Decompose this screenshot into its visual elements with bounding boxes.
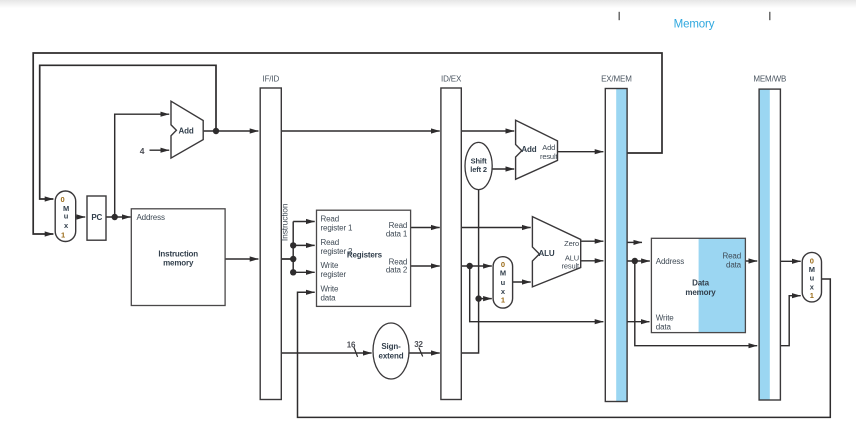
- svg-text:data 2: data 2: [386, 266, 408, 275]
- wire: ALU mux output -> ALU: [513, 281, 531, 283]
- node: ALU result branch junction after EX/MEM: [632, 258, 638, 264]
- adder Add (PC+4): [171, 101, 203, 158]
- svg-text:ID/EX: ID/EX: [441, 75, 462, 84]
- junction dots: [112, 128, 639, 302]
- wire: Read data 2 -> ID/EX: [411, 265, 440, 267]
- node: PC+4 junction at Add output: [213, 128, 219, 134]
- wire: MEM/WB ALU result -> final mux input 1: [780, 296, 800, 346]
- wire: instruction -> Read register 1: [293, 221, 315, 223]
- wire: Zero out of EX/MEM (dangling): [627, 241, 642, 243]
- svg-text:data 1: data 1: [386, 230, 408, 239]
- wire: instruction memory -> IF/ID: [225, 258, 259, 260]
- svg-text:0: 0: [60, 195, 64, 204]
- svg-text:Read: Read: [321, 238, 340, 247]
- svg-text:Instruction: Instruction: [280, 203, 290, 241]
- wire: ALU result bypass down-around -> MEM/WB: [635, 261, 757, 346]
- wire: MEM/WB read data -> final mux input 0: [780, 260, 800, 262]
- svg-text:register: register: [321, 270, 347, 279]
- wire: PC riser to Add top input: [115, 114, 170, 217]
- wire: Read data 2 branch down -> EX/MEM write data: [470, 266, 604, 322]
- svg-text:Memory: Memory: [674, 19, 715, 31]
- svg-text:1: 1: [61, 230, 65, 239]
- svg-text:left 2: left 2: [470, 165, 487, 174]
- node: read data 2 branch junction: [467, 263, 473, 269]
- wire: Read data 2 ID/EX -> ALU mux input 0: [461, 265, 492, 267]
- wire: instruction -> Read register 2: [293, 244, 315, 246]
- stage tick left (above EX/MEM): [618, 12, 620, 20]
- pipeline register EX/MEM (right half highlighted): [601, 75, 632, 402]
- wire: PCSrc mux output -> PC: [76, 216, 86, 218]
- svg-text:extend: extend: [379, 352, 404, 361]
- wire: constant 4 -> Add: [150, 149, 170, 151]
- wire: PC+4 IF/ID -> ID/EX: [281, 130, 439, 132]
- wire: instruction bus from IF/ID: [281, 258, 293, 260]
- svg-text:Add: Add: [179, 126, 194, 135]
- svg-text:Zero: Zero: [564, 239, 579, 248]
- svg-text:memory: memory: [685, 288, 716, 297]
- svg-text:u: u: [64, 212, 69, 221]
- stage tick right (above MEM/WB): [769, 12, 771, 20]
- wire: Read data 1 ID/EX -> ALU: [461, 227, 530, 229]
- svg-text:32: 32: [414, 340, 423, 349]
- shift left 2 unit: [465, 142, 492, 189]
- wire: shift left 2 -> branch Add: [492, 168, 514, 170]
- wire: write data EX/MEM -> data memory: [627, 321, 649, 323]
- svg-text:16: 16: [347, 341, 356, 350]
- svg-text:Read: Read: [321, 215, 340, 224]
- wire: branch Add result -> EX/MEM: [558, 151, 604, 153]
- svg-text:data: data: [321, 294, 337, 303]
- wire: PC+4 feedback loop Add -> PCSrc mux input 0: [40, 65, 216, 199]
- svg-text:1: 1: [501, 295, 505, 304]
- wire: ALU result EX/MEM -> data memory Address: [627, 260, 650, 262]
- wire: Read data 1 -> ID/EX: [411, 227, 440, 229]
- svg-text:M: M: [500, 269, 506, 278]
- svg-text:ALU: ALU: [539, 249, 555, 258]
- svg-text:Write: Write: [321, 285, 339, 294]
- svg-text:Data: Data: [692, 279, 709, 288]
- svg-text:Address: Address: [137, 213, 165, 222]
- mux M1 (PCSrc): [55, 191, 75, 242]
- wire: Add output -> IF/ID: [204, 130, 259, 132]
- svg-text:Write: Write: [321, 261, 339, 270]
- svg-text:Shift: Shift: [471, 156, 488, 165]
- svg-text:MEM/WB: MEM/WB: [753, 75, 786, 84]
- wire: write-back loop final mux -> Registers Write data: [298, 279, 831, 417]
- svg-text:Address: Address: [656, 257, 684, 266]
- wire: sign-extend output -> ID/EX: [409, 352, 440, 354]
- pipeline register ID/EX: [441, 75, 462, 400]
- wire: instruction immediate -> sign-extend: [281, 259, 372, 353]
- ALU: [532, 217, 580, 287]
- pipeline register IF/ID: [260, 75, 281, 400]
- svg-text:PC: PC: [91, 213, 102, 222]
- bus width tick 32: [419, 348, 423, 357]
- mux M2 (ALUSrc): [493, 257, 512, 308]
- mux M3 (MemtoReg): [802, 252, 821, 302]
- top page-edge gradient band: [0, 0, 856, 8]
- wire: branch-target feedback loop EX/MEM -> PCSrc mux input 1: [33, 53, 662, 234]
- svg-text:Read: Read: [722, 252, 741, 261]
- svg-text:u: u: [501, 278, 506, 287]
- svg-text:u: u: [810, 274, 815, 283]
- wire: PC -> instruction memory Address: [106, 216, 131, 218]
- data memory (read port highlighted): [651, 238, 745, 332]
- wire: immediate -> ALU mux input 1: [479, 298, 492, 300]
- svg-text:1: 1: [810, 291, 814, 300]
- node: immediate branch junction to ALU mux: [475, 295, 481, 301]
- wire: sign-extended immediate ID/EX -> shift left 2 riser: [461, 189, 478, 353]
- svg-text:Sign-: Sign-: [381, 342, 401, 351]
- svg-text:data: data: [656, 323, 672, 332]
- instruction memory: [131, 209, 225, 306]
- svg-text:Registers: Registers: [347, 251, 383, 260]
- svg-text:result: result: [562, 262, 581, 271]
- svg-text:memory: memory: [163, 259, 194, 268]
- wire: instruction vertical bus: [292, 222, 294, 273]
- svg-text:Add: Add: [521, 145, 536, 154]
- node: instruction bus junction (read reg 2): [290, 242, 296, 248]
- node: PC output junction: [112, 214, 118, 220]
- wire: data memory Read data -> MEM/WB: [745, 260, 757, 262]
- svg-text:Write: Write: [656, 314, 674, 323]
- svg-text:data: data: [726, 261, 742, 270]
- wire: ALU result -> EX/MEM: [581, 260, 604, 262]
- svg-text:register 1: register 1: [321, 224, 354, 233]
- sign-extend unit: [373, 323, 409, 379]
- registers block: [317, 210, 411, 306]
- node: instruction bus junction (immediate): [290, 256, 296, 262]
- svg-text:EX/MEM: EX/MEM: [601, 75, 632, 84]
- wire: ALU Zero -> EX/MEM: [581, 240, 604, 242]
- bus width tick 16: [354, 347, 358, 357]
- svg-text:Instruction: Instruction: [158, 249, 198, 258]
- wire: instruction -> Write register: [293, 271, 315, 273]
- svg-text:Add: Add: [542, 143, 555, 152]
- adder Add (branch target): [516, 120, 559, 179]
- wire: PC+4 ID/EX -> branch Add: [461, 130, 514, 132]
- pipeline register MEM/WB (left half highlighted): [753, 75, 786, 400]
- node: instruction bus junction (write reg): [290, 269, 296, 275]
- svg-text:4: 4: [140, 146, 145, 156]
- svg-text:IF/ID: IF/ID: [263, 75, 280, 84]
- register PC: [87, 196, 106, 240]
- svg-text:result: result: [540, 152, 559, 161]
